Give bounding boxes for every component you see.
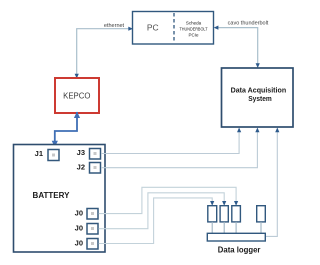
svg-text:ethernet: ethernet bbox=[104, 23, 125, 29]
connector J0 middle bbox=[75, 224, 98, 235]
wire KEPCO to battery J1 (blue) bbox=[52, 112, 80, 148]
svg-text:cavo thunderbolt: cavo thunderbolt bbox=[228, 20, 269, 26]
connector J0 top bbox=[75, 209, 98, 220]
wire ethernet (KEPCO to PC) bbox=[75, 27, 133, 79]
svg-text:J2: J2 bbox=[77, 162, 85, 171]
svg-text:PCIe: PCIe bbox=[188, 33, 199, 38]
box PC bbox=[133, 12, 214, 45]
wire J0 middle to probe 2 bbox=[99, 193, 227, 229]
svg-text:BATTERY: BATTERY bbox=[33, 191, 71, 200]
wire J3 to DAQ bbox=[101, 128, 241, 154]
probe 1 bbox=[208, 206, 217, 234]
svg-text:J0: J0 bbox=[75, 224, 83, 233]
svg-text:J1: J1 bbox=[35, 149, 43, 158]
connector J0 bottom bbox=[75, 239, 98, 250]
wire J0 top to probe 3 bbox=[99, 187, 239, 213]
svg-text:J0: J0 bbox=[75, 209, 83, 218]
probe 2 bbox=[220, 206, 228, 234]
box BATTERY bbox=[14, 145, 106, 253]
wire data logger to DAQ bbox=[266, 128, 280, 237]
box Data Acquisition System bbox=[222, 68, 294, 127]
svg-text:PC: PC bbox=[147, 23, 159, 33]
label Scheda THUNDERBOLT PCIe bbox=[180, 21, 208, 38]
svg-text:J3: J3 bbox=[77, 148, 85, 157]
svg-text:Data logger: Data logger bbox=[218, 244, 261, 254]
svg-text:KEPCO: KEPCO bbox=[63, 91, 90, 100]
svg-text:THUNDERBOLT: THUNDERBOLT bbox=[180, 27, 208, 32]
wire cavo thunderbolt (PC to DAQ) bbox=[214, 26, 260, 69]
box Data logger bbox=[207, 233, 265, 254]
svg-text:System: System bbox=[248, 94, 272, 103]
probe 3 bbox=[232, 206, 241, 234]
svg-text:Scheda: Scheda bbox=[186, 21, 202, 26]
connector J1 bbox=[35, 149, 59, 161]
divider dashed (PC / scheda) bbox=[173, 13, 175, 43]
wire J2 to DAQ bbox=[101, 128, 260, 168]
connector J2 bbox=[77, 162, 101, 173]
wire J0 bottom to probe 1 bbox=[99, 198, 215, 244]
box KEPCO bbox=[55, 78, 99, 113]
svg-text:J0: J0 bbox=[75, 239, 83, 248]
probe 4 bbox=[257, 206, 266, 234]
connector J3 bbox=[77, 148, 101, 159]
